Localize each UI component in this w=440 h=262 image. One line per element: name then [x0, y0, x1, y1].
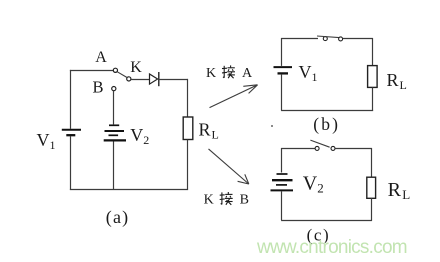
wire: circuit (a) left vertical upper (to V1 top) — [70, 70, 72, 129]
wire: (c) left vertical upper — [281, 148, 283, 173]
battery V2 plate 2 long (c) — [272, 179, 293, 181]
svg-text:(b): (b) — [313, 114, 340, 134]
svg-text:(a): (a) — [106, 207, 130, 228]
battery V2 plate 2 long (a) — [105, 130, 125, 132]
switch terminal circle right (b) — [339, 37, 343, 41]
switch terminal circle left (b) — [323, 37, 327, 41]
battery V1 long plate (b) — [274, 66, 293, 68]
wire: (c) top wire left segment — [281, 148, 315, 150]
resistor RL rectangle (b) — [368, 66, 378, 88]
arrow to circuit (c) — [209, 149, 249, 184]
svg-text:K: K — [204, 192, 214, 207]
wire: (b) top wire left segment — [281, 38, 318, 40]
switch terminal circle right (c) — [331, 146, 335, 150]
battery V1 long plate (a) — [62, 129, 81, 131]
arrow to circuit (b) — [210, 85, 258, 108]
node A terminal circle of switch K — [113, 68, 117, 72]
wire: (c) right vertical lower — [371, 198, 373, 221]
battery V2 plate 4 long (c) — [271, 189, 294, 191]
wire: circuit (a) right vertical upper — [187, 79, 189, 118]
wire: (c) bottom wire — [281, 220, 372, 222]
diode D triangle — [150, 74, 158, 84]
svg-text:B: B — [93, 78, 104, 97]
svg-text:K: K — [206, 66, 216, 81]
wire: V2 branch lower to bottom wire — [113, 141, 115, 189]
wire: diode to top-right corner — [159, 79, 188, 81]
switch terminal circle left (c) — [315, 146, 319, 150]
switch blade (c) open — [310, 140, 329, 147]
wire: (b) right vertical lower — [372, 87, 374, 111]
label K 接 A — [206, 65, 253, 80]
wire: (b) right vertical upper — [372, 38, 374, 66]
switch K pole circle — [127, 77, 131, 81]
battery V2 plate 4 long (a) — [104, 139, 126, 141]
wire: (c) left vertical lower — [281, 191, 283, 220]
wire: V2 branch upper (below B circle) — [113, 91, 115, 125]
stray dot — [271, 125, 273, 127]
battery V2 plate 1 short (c) — [277, 173, 288, 175]
node B terminal circle of switch K — [112, 87, 116, 91]
svg-text:B: B — [240, 192, 249, 207]
wire: circuit (a) top wire from left corner to switch terminal A — [70, 70, 113, 72]
resistor RL rectangle (c) — [367, 177, 376, 198]
wire: circuit (a) right vertical lower — [187, 140, 189, 190]
wire: (c) right vertical upper — [371, 148, 373, 177]
switch K blade — [117, 72, 127, 78]
resistor RL rectangle (a) — [183, 117, 193, 140]
wire: circuit (a) left vertical lower (below V1) — [70, 136, 72, 190]
battery V2 plate 1 short (a) — [109, 124, 119, 126]
diode D cathode bar — [158, 72, 160, 86]
battery V2 plate 3 short (c) — [276, 184, 287, 186]
svg-text:www.cntronics.com: www.cntronics.com — [256, 237, 407, 258]
svg-text:A: A — [242, 66, 253, 81]
wire: switch pole to diode anode — [131, 79, 150, 81]
battery V1 short plate (a) — [66, 134, 75, 136]
label K 接 B — [204, 192, 249, 207]
battery V1 short plate (b) — [278, 72, 289, 74]
wire: circuit (a) bottom wire — [70, 189, 188, 191]
wire: (b) left vertical lower — [281, 75, 283, 111]
wire: (b) bottom wire — [281, 110, 373, 112]
switch blade (b) closed — [317, 36, 339, 38]
wire: (b) top wire right segment — [343, 38, 373, 40]
svg-text:A: A — [95, 49, 107, 66]
battery V2 plate 3 short (a) — [109, 134, 119, 136]
svg-text:K: K — [130, 59, 142, 76]
wire: (b) left vertical upper — [281, 38, 283, 66]
wire: (c) top wire right segment — [335, 148, 372, 150]
